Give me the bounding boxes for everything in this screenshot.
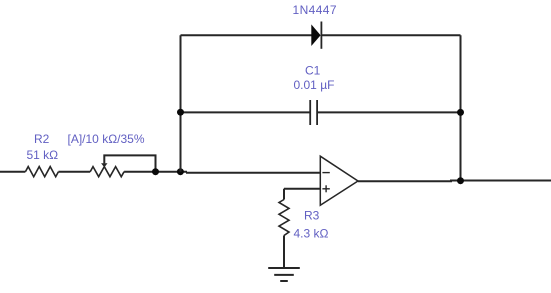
op-amp U1 triangle: [320, 156, 358, 205]
wire node to op-amp minus input: [187, 172, 321, 173]
resistor R2: [25, 167, 58, 177]
wire cap node to left plate: [181, 111, 311, 113]
diode 1N4447 anode triangle: [311, 24, 320, 46]
wire pot to node: [124, 171, 187, 173]
wire right vertical drop: [460, 35, 462, 180]
wire plus input: [284, 188, 321, 190]
junction dot output: [457, 177, 464, 184]
wire top feedback to diode: [181, 34, 312, 36]
op-amp minus symbol: [322, 172, 329, 174]
svg-text:51 kΩ: 51 kΩ: [27, 148, 59, 162]
junction dot feedback node: [177, 168, 184, 175]
wire input left segment: [0, 171, 25, 173]
svg-text:C1: C1: [305, 64, 321, 78]
ground symbol: [268, 267, 300, 269]
junction dot wiper node: [152, 168, 159, 175]
wire op-amp output: [358, 180, 551, 183]
wire between R2 and potentiometer: [58, 171, 90, 173]
diode cathode bar: [320, 22, 322, 49]
wire cap right plate to right node: [317, 111, 460, 113]
wire plus input down to R3: [283, 189, 285, 200]
wire left vertical feedback riser: [180, 35, 182, 171]
capacitor C1 left plate: [309, 100, 311, 125]
junction dot cap left: [177, 109, 184, 116]
op-amp plus symbol: [322, 188, 329, 190]
svg-text:R3: R3: [304, 209, 320, 223]
svg-text:1N4447: 1N4447: [293, 3, 337, 17]
wiper wire up-right-down: [104, 155, 155, 171]
resistor R3: [279, 200, 289, 236]
wire R3 to ground: [283, 236, 285, 269]
svg-text:R2: R2: [34, 132, 50, 146]
svg-text:4.3 kΩ: 4.3 kΩ: [294, 227, 329, 241]
capacitor C1 right plate: [316, 100, 318, 125]
junction dot cap right: [457, 109, 464, 116]
potentiometer wiper arrowhead: [101, 163, 107, 167]
wire diode to right corner: [321, 34, 460, 36]
svg-text:0.01 µF: 0.01 µF: [294, 78, 335, 92]
potentiometer body zigzag: [90, 167, 124, 177]
svg-text:[A]/10 kΩ/35%: [A]/10 kΩ/35%: [68, 132, 145, 146]
